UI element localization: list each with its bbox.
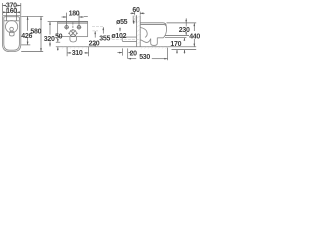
svg-text:440: 440: [189, 33, 200, 40]
svg-text:60: 60: [132, 7, 140, 14]
svg-text:310: 310: [72, 50, 83, 57]
svg-text:220: 220: [89, 40, 100, 47]
svg-text:355: 355: [99, 36, 110, 43]
svg-text:ø102: ø102: [111, 33, 126, 40]
svg-text:320: 320: [44, 36, 55, 43]
svg-text:ø55: ø55: [116, 19, 128, 26]
svg-text:180: 180: [69, 11, 80, 18]
svg-text:170: 170: [170, 41, 181, 48]
svg-text:20: 20: [130, 50, 138, 57]
svg-text:530: 530: [139, 54, 150, 61]
svg-text:580: 580: [30, 29, 41, 36]
svg-text:160: 160: [6, 8, 17, 15]
svg-text:50: 50: [55, 34, 63, 41]
